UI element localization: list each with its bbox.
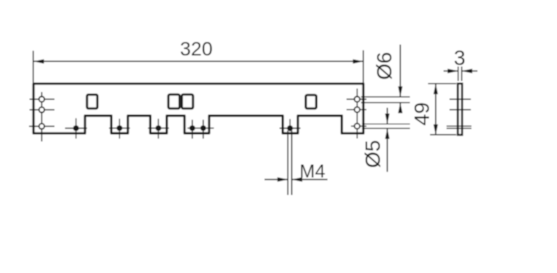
svg-text:Ø6: Ø6 — [373, 52, 396, 80]
plate outline (front view) — [34, 84, 364, 134]
hole R3 — [354, 123, 359, 128]
svg-text:3: 3 — [454, 47, 466, 70]
dimension 320 extension line left — [32, 51, 34, 83]
dimension M4 arrow right-pointing — [277, 177, 288, 181]
dimension M4 line left — [265, 179, 288, 181]
dimension O6 arrow up — [398, 103, 402, 114]
dimension 320 arrow left — [34, 59, 45, 63]
hole L1 — [39, 97, 44, 102]
dimension O6 line upper — [399, 45, 401, 97]
centerline hole L2 — [30, 109, 55, 111]
centerline hole R1 — [347, 98, 367, 100]
svg-text:M4: M4 — [300, 161, 326, 182]
centerline vertical right holes — [356, 89, 358, 139]
centerline hole L3 — [29, 125, 55, 127]
svg-text:49: 49 — [411, 102, 434, 125]
dimension M4 arrow left-pointing — [292, 177, 303, 181]
dimension O5 extension top — [362, 123, 410, 125]
rectangular cutout 4 — [306, 95, 317, 109]
tapped hole M4 #1 cross — [65, 127, 87, 129]
side view centerline row 2 — [450, 109, 471, 111]
hole R1 — [354, 97, 359, 102]
dimension O6 extension bottom — [361, 102, 410, 104]
dimension 320 line — [34, 60, 364, 62]
rectangular cutout 1 — [87, 95, 97, 109]
dimension 3 line left — [444, 70, 459, 72]
dimension 49 extension bottom — [430, 134, 456, 136]
side view body — [458, 84, 462, 135]
dimension 49 extension top — [428, 83, 456, 85]
side view centerline row 4 (M4) — [447, 127, 472, 129]
rectangular cutout 3 — [182, 95, 193, 109]
dimension 3 extension left — [457, 67, 459, 82]
tapped hole M4 #3 cross — [148, 127, 169, 129]
dimension 49 line — [435, 84, 437, 135]
dimension M4 line right — [292, 179, 328, 181]
centerline vertical left holes — [41, 92, 43, 142]
dimension 3 arrow right-pointing — [448, 69, 459, 73]
dimension O6 extension top — [361, 96, 410, 98]
dimension 49 arrow down — [434, 124, 438, 134]
dimension O5 extension bottom — [362, 127, 410, 129]
dimension 320 extension line right — [362, 50, 364, 82]
tapped hole M4 #6 cross — [280, 127, 301, 129]
tapped hole M4 #5 — [200, 125, 206, 131]
centerline hole R3 — [351, 125, 367, 127]
side view centerline row 1 — [450, 98, 471, 100]
tapped hole M4 #4 — [189, 125, 195, 131]
dimension 3 line right — [462, 70, 478, 72]
svg-text:320: 320 — [180, 38, 213, 60]
dimension O5 arrow down — [385, 114, 389, 125]
hole L3 — [39, 124, 44, 129]
dimension O5 line lower — [386, 128, 388, 171]
tapped holes M4 #4 #5 shared centerline — [188, 127, 214, 129]
hole R2 — [354, 107, 359, 112]
dimension 3 extension right — [461, 67, 463, 82]
dimension 49 arrow up — [434, 84, 438, 95]
dimension O6 line lower — [399, 103, 401, 113]
tapped hole M4 #3 — [156, 125, 162, 131]
tapped hole M4 #6 — [287, 125, 293, 131]
side view centerline row 3 — [447, 125, 472, 127]
dimension O5 arrow up — [385, 128, 389, 139]
dimension 3 arrow left-pointing — [462, 69, 473, 73]
svg-text:Ø5: Ø5 — [362, 140, 385, 168]
dimension O6 arrow down — [398, 86, 402, 97]
rectangular cutout 2 — [168, 95, 179, 109]
dimension O5 line upper — [386, 108, 388, 124]
dimension M4 extension line right — [291, 131, 293, 196]
tapped hole M4 #2 cross — [109, 127, 130, 129]
centerline hole R2 — [347, 109, 367, 111]
dimension M4 extension line left — [287, 131, 289, 196]
tapped hole M4 #1 — [73, 125, 79, 131]
tapped hole M4 #2 — [117, 125, 123, 131]
dimension 320 arrow right — [353, 59, 364, 63]
centerline hole L1 — [30, 98, 55, 100]
hole L2 — [39, 107, 44, 112]
